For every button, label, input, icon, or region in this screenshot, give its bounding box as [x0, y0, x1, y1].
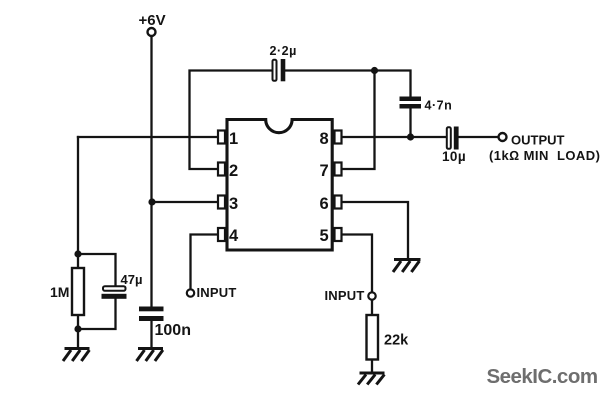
wire pin 8 to output junction [341, 136, 411, 138]
svg-text:3: 3 [229, 195, 238, 213]
wire feedback line right of 2.2u to 4.7n [286, 71, 411, 97]
svg-text:22k: 22k [384, 333, 409, 349]
wire 10u to output terminal [459, 136, 499, 138]
svg-text:1M: 1M [50, 284, 69, 300]
node junction dot pin3/+6V rail [148, 198, 155, 205]
ground below 1M [63, 349, 90, 362]
wire input terminal to 22k [371, 300, 373, 316]
pin 3 [218, 196, 225, 209]
wire 1M bottom to ground [77, 315, 79, 348]
pin 4 [218, 228, 225, 241]
op-amp U1 IC body DIP-8 with notch [227, 120, 332, 251]
pin 6 [335, 196, 342, 209]
node junction dot 1M bottom [74, 325, 81, 332]
capacitor C3 10u plates [447, 127, 459, 150]
pin 2 [218, 163, 225, 176]
resistor R2 22k body [367, 315, 379, 360]
ground below pin 6 wire [393, 260, 421, 273]
svg-text:2: 2 [229, 162, 238, 180]
wire 22k bottom to ground [371, 360, 373, 373]
svg-text:6: 6 [320, 195, 329, 213]
wire left rail down to 1M [77, 137, 79, 268]
node junction dot 1M top [74, 250, 81, 257]
wire 47u top branch [78, 254, 116, 287]
svg-text:7: 7 [320, 162, 329, 180]
wire 100n bottom to ground [150, 321, 152, 349]
wire pin 3 to +6V rail [152, 201, 219, 203]
svg-text:4: 4 [229, 227, 239, 245]
svg-text:SeekIC.com: SeekIC.com [487, 365, 598, 388]
svg-text:8: 8 [320, 130, 329, 148]
wire pin 5 down to input terminal [341, 235, 372, 293]
ground below 22k [358, 373, 385, 385]
terminal INPUT (pin 5) [368, 292, 375, 299]
terminal OUTPUT [499, 133, 507, 141]
pin 7 [335, 163, 342, 176]
pin 5 [335, 228, 342, 241]
terminal INPUT (pin 4) [187, 289, 194, 296]
svg-text:10µ: 10µ [442, 149, 466, 164]
wire pin 4 down to input terminal [191, 235, 220, 290]
wire 47u bottom branch [78, 299, 116, 330]
wire pin 7 up to feedback junction [341, 71, 375, 170]
wire 4.7n bottom to output line [409, 109, 411, 138]
wire pin 2 up to feedback line [190, 71, 273, 170]
svg-text:1: 1 [229, 130, 238, 148]
svg-text:5: 5 [320, 227, 329, 245]
svg-text:INPUT: INPUT [197, 285, 237, 300]
svg-text:OUTPUT: OUTPUT [511, 133, 565, 148]
resistor R1 1M body [72, 268, 84, 315]
svg-text:100n: 100n [155, 322, 191, 339]
pin 8 [335, 131, 342, 144]
ground below 100n [137, 349, 164, 362]
capacitor C2 4.7n plates [400, 97, 422, 109]
svg-text:+6V: +6V [139, 12, 166, 29]
capacitor C1 2.2u plates [273, 59, 286, 81]
wire pin 1 horizontal to left rail [78, 136, 219, 138]
node junction dot output/4.7n [407, 133, 414, 140]
pin 1 [218, 131, 225, 144]
svg-text:INPUT: INPUT [325, 288, 365, 303]
capacitor C5 100n plates [139, 307, 164, 322]
svg-text:47µ: 47µ [121, 272, 143, 287]
svg-text:4·7n: 4·7n [425, 99, 453, 113]
svg-text:(1kΩ MIN LOAD): (1kΩ MIN LOAD) [489, 148, 600, 163]
svg-text:2·2µ: 2·2µ [270, 44, 297, 58]
wire output junction to 10u [411, 136, 447, 138]
terminal +6V [148, 28, 156, 36]
capacitor C4 47u plates [102, 286, 127, 299]
node junction dot feedback/pin7 [371, 67, 378, 74]
wire pin 6 to ground [341, 202, 408, 259]
wire +6V rail vertical [150, 37, 152, 307]
